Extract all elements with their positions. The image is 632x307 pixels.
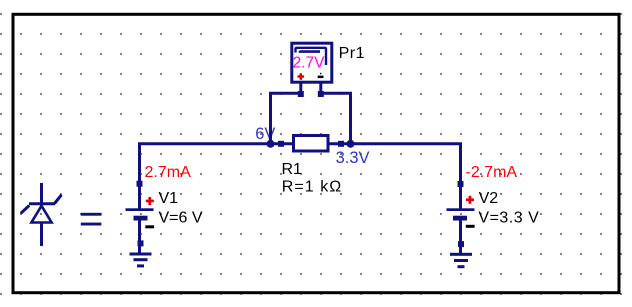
- svg-text:V=3.3 V: V=3.3 V: [478, 210, 539, 227]
- wire V2 branch vertical: [459, 143, 462, 209]
- wire probe left horizontal: [269, 92, 298, 95]
- battery V1: [126, 208, 154, 220]
- plus V2: [466, 196, 474, 204]
- battery V2: [447, 208, 475, 220]
- svg-text:R=1 kΩ: R=1 kΩ: [282, 179, 343, 196]
- pin square R1 left: [278, 141, 284, 147]
- svg-text:V=6 V: V=6 V: [159, 210, 203, 227]
- wire probe left stub: [299, 83, 302, 92]
- node 3.3V junction dot: [347, 140, 355, 148]
- svg-text:6V: 6V: [255, 125, 275, 143]
- equals sign: [81, 213, 102, 226]
- wire probe left vertical: [269, 93, 272, 144]
- probe minus: [318, 76, 324, 79]
- pin square probe right: [318, 91, 324, 97]
- svg-text:3.3V: 3.3V: [336, 149, 370, 167]
- svg-text:-2.7mA: -2.7mA: [466, 164, 518, 181]
- wire V1 to ground: [138, 221, 141, 254]
- plus V1: [146, 197, 154, 205]
- svg-text:2.7mA: 2.7mA: [145, 164, 192, 181]
- pin square V2: [458, 181, 464, 187]
- svg-text:Pr1: Pr1: [339, 45, 365, 62]
- wire probe right vertical: [349, 93, 352, 144]
- svg-text:V2: V2: [479, 190, 499, 207]
- node 6V junction dot: [267, 140, 275, 148]
- svg-text:R1: R1: [282, 161, 303, 178]
- minus V2: [466, 225, 475, 228]
- pin square V2 ground: [458, 241, 464, 247]
- wire probe right horizontal: [323, 92, 352, 95]
- resistor R1: [294, 136, 329, 152]
- pin square R1 right: [338, 141, 344, 147]
- pin square probe left: [298, 91, 304, 97]
- wire main horizontal: [138, 142, 462, 145]
- probe Pr1 box: [292, 43, 332, 82]
- probe plus: [298, 73, 305, 80]
- wire probe right stub: [319, 83, 322, 92]
- pin square V1: [137, 181, 143, 187]
- probe screen glyph: [296, 48, 327, 65]
- wire V2 to ground: [459, 221, 462, 254]
- svg-text:2.7V: 2.7V: [293, 55, 326, 72]
- ground V2: [450, 253, 472, 268]
- minus V1: [145, 225, 154, 228]
- wire V1 branch vertical: [138, 143, 141, 209]
- ground V1: [130, 253, 152, 268]
- svg-text:V1: V1: [159, 190, 179, 207]
- zener diode symbol: [21, 183, 62, 246]
- pin square V1 ground: [138, 240, 144, 246]
